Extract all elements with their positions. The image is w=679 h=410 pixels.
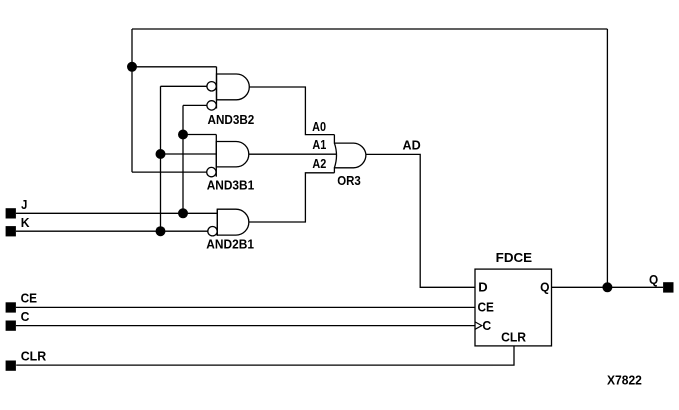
flip-flop FDCE box <box>475 269 552 346</box>
svg-text:Q: Q <box>649 273 658 287</box>
wire AND3B2 output <box>249 87 334 135</box>
svg-text:OR3: OR3 <box>337 174 361 188</box>
svg-text:FDCE: FDCE <box>496 251 532 265</box>
pin square Q output <box>663 282 673 292</box>
wire Q output <box>552 286 664 288</box>
wire J input <box>16 212 217 214</box>
junction dot F <box>602 282 612 292</box>
and-gate AND3B2 <box>207 67 249 110</box>
wire AND3B2 middle input <box>161 85 207 87</box>
svg-text:K: K <box>21 216 30 230</box>
svg-text:AND3B1: AND3B1 <box>207 178 255 192</box>
and-gate AND2B1 <box>208 209 249 236</box>
pin square K <box>6 226 16 236</box>
wire AND3B1 middle input <box>161 153 217 155</box>
svg-text:CLR: CLR <box>501 331 526 345</box>
svg-text:C: C <box>21 310 30 324</box>
pin square C <box>6 321 16 331</box>
svg-text:CE: CE <box>21 292 37 306</box>
wire AND3B1 bottom input <box>132 171 207 173</box>
wire OR3 output AD <box>366 154 475 287</box>
wire CE input <box>16 306 475 308</box>
pin square CE <box>6 302 16 312</box>
svg-text:A2: A2 <box>312 157 326 171</box>
wire K input <box>16 230 208 232</box>
or-gate OR3 <box>334 143 366 168</box>
wire AND3B2 bottom input <box>183 104 207 106</box>
svg-text:A0: A0 <box>312 120 326 134</box>
junction dot B <box>178 130 188 140</box>
svg-text:X7822: X7822 <box>607 374 642 388</box>
svg-text:C: C <box>482 319 491 333</box>
svg-text:AND2B1: AND2B1 <box>206 237 254 251</box>
wire AND3B2 top input <box>132 66 217 68</box>
svg-text:CLR: CLR <box>21 350 47 364</box>
wire K branch vertical <box>160 86 162 231</box>
svg-text:AND3B2: AND3B2 <box>208 113 255 127</box>
wire J branch vertical <box>182 105 184 213</box>
svg-text:J: J <box>21 198 27 212</box>
junction dot C <box>156 149 166 159</box>
wire AND3B1 top input <box>183 134 216 136</box>
wire right feedback vertical <box>606 29 608 287</box>
wire AND2B1 output <box>249 173 335 222</box>
junction dot E <box>156 226 166 236</box>
svg-text:CE: CE <box>478 300 494 314</box>
wire AND3B1 output A1 <box>249 153 337 155</box>
junction dot A <box>127 62 137 72</box>
svg-text:Q: Q <box>540 281 550 295</box>
svg-text:D: D <box>478 281 487 295</box>
wire top feedback horizontal <box>132 28 607 30</box>
clock triangle <box>475 322 482 329</box>
wire C input <box>16 325 475 327</box>
junction dot D <box>178 208 188 218</box>
and-gate AND3B1 <box>207 135 249 177</box>
svg-text:A1: A1 <box>312 138 326 152</box>
wire CLR input <box>16 346 514 365</box>
wire OR3 A2 stub <box>333 167 335 172</box>
wire left feedback vertical <box>131 29 133 172</box>
pin square CLR <box>6 361 16 371</box>
svg-text:AD: AD <box>403 138 421 152</box>
pin square J <box>6 208 16 218</box>
wire OR3 A0 stub <box>333 135 335 144</box>
